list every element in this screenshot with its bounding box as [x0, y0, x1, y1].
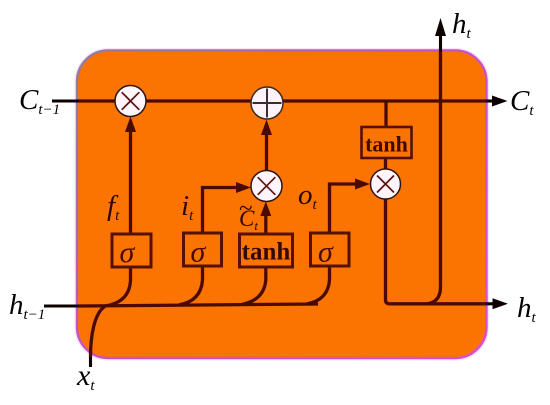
svg-text:ht: ht	[517, 292, 537, 326]
wire C-line outside left	[52, 99, 79, 102]
wire x_t input curve outside	[89, 357, 92, 367]
wire h branch up inside	[427, 51, 441, 304]
wire C-line inside	[79, 99, 486, 102]
wire multiply right down to output line	[386, 199, 391, 304]
cell body glow	[77, 51, 487, 359]
wire tanh2 to multiply right	[384, 158, 387, 170]
wire multiply mid to add node	[265, 131, 268, 171]
arrow into multiply node 1	[125, 117, 136, 133]
wire h-prev line inside	[79, 304, 318, 306]
cell body	[77, 51, 487, 359]
wire h-prev line outside	[44, 304, 79, 307]
arrow into multiply node mid from i	[236, 182, 251, 193]
svg-text:σ: σ	[191, 236, 207, 269]
sigma box o	[311, 233, 350, 269]
svg-text:ht: ht	[452, 8, 472, 42]
wire i gate up and right	[203, 188, 241, 234]
svg-text:ht−1: ht−1	[9, 289, 45, 323]
svg-text:tanh: tanh	[365, 132, 408, 157]
svg-text:tanh: tanh	[242, 239, 291, 266]
arrow into add node	[261, 120, 272, 136]
wire h branch up outside	[439, 33, 442, 51]
label C~_t	[239, 195, 258, 233]
svg-text:~: ~	[239, 195, 253, 222]
multiply node right (output)	[371, 169, 401, 199]
svg-text:xt: xt	[76, 359, 95, 394]
multiply node 1 (forget)	[115, 86, 146, 117]
multiply node mid (input)	[251, 171, 282, 202]
svg-text:Ct: Ct	[510, 85, 534, 119]
arrow into multiply node mid from tanh	[260, 202, 271, 217]
wire x_t input curve inside	[91, 306, 106, 357]
wire output line inside	[390, 302, 486, 305]
wire output line outside	[486, 302, 495, 305]
sigma box i	[184, 233, 222, 269]
svg-text:σ: σ	[318, 236, 334, 269]
wire tanh gate to multiply node mid	[264, 212, 267, 234]
wire branch to tanh gate	[242, 267, 266, 304]
arrow into multiply node right from o	[355, 179, 370, 190]
wire f gate to multiply node	[129, 128, 132, 234]
wire branch to sigma i	[179, 267, 203, 305]
svg-text:σ: σ	[120, 236, 136, 269]
wire C-line to tanh2	[384, 101, 387, 127]
wire branch to sigma o	[307, 266, 330, 304]
wire branch to sigma f	[106, 267, 131, 306]
arrow h_t top output	[435, 18, 446, 36]
tanh box 2	[362, 127, 412, 158]
sigma box f	[112, 234, 151, 269]
tanh box 1	[240, 234, 293, 267]
arrow C_t output	[492, 96, 508, 107]
arrow h_t right output	[493, 298, 509, 309]
add node	[251, 87, 283, 119]
wire C-line outside right	[486, 99, 495, 102]
wire o gate up and right	[330, 184, 359, 233]
